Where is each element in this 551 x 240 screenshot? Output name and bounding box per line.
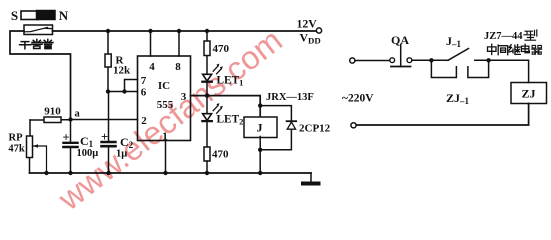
svg-text:470: 470 xyxy=(212,149,229,161)
svg-text:6: 6 xyxy=(141,87,147,99)
svg-text:C1: C1 xyxy=(80,134,94,149)
wire to QA xyxy=(355,60,390,62)
svg-text:12k: 12k xyxy=(113,65,131,77)
svg-text:a: a xyxy=(75,109,81,120)
wire J bottom xyxy=(259,137,261,174)
svg-text:RP: RP xyxy=(9,133,24,144)
svg-text:JRX—13F: JRX—13F xyxy=(266,92,314,103)
svg-text:ZJ: ZJ xyxy=(521,87,535,101)
resistor R 12k xyxy=(107,31,109,92)
svg-text:3: 3 xyxy=(181,91,187,103)
svg-text:470: 470 xyxy=(213,43,230,55)
node ZJ-1 right xyxy=(486,58,490,62)
svg-text:7: 7 xyxy=(141,75,147,87)
svg-text:4: 4 xyxy=(149,61,155,73)
svg-text:IC: IC xyxy=(158,80,170,92)
resistor 470 bottom xyxy=(204,147,210,161)
wire QA to contact xyxy=(412,59,448,61)
resistor 470 top xyxy=(206,31,208,75)
node C2 bottom xyxy=(106,171,110,175)
relay contact J-1 blade xyxy=(448,49,469,61)
label 中间继电器 xyxy=(488,44,542,54)
svg-text:~220V: ~220V xyxy=(342,93,374,105)
svg-text:2CP12: 2CP12 xyxy=(299,123,331,135)
node RP wiper xyxy=(44,171,48,175)
magnet N pole (black box) xyxy=(37,11,56,20)
node pin8 branch xyxy=(177,29,181,33)
LED LET2 xyxy=(206,96,208,114)
svg-text:+: + xyxy=(62,131,69,145)
svg-text:LET2: LET2 xyxy=(217,114,244,127)
svg-text:J: J xyxy=(257,121,263,135)
wire reed left loop xyxy=(10,31,71,120)
wire pin2 xyxy=(71,119,138,121)
wire pin8 xyxy=(178,31,180,56)
svg-text:JZ7—44: JZ7—44 xyxy=(484,31,523,42)
node 470 bottom xyxy=(205,171,209,175)
bottom rail xyxy=(30,172,312,174)
capacitor C2 1u xyxy=(108,147,110,173)
node a xyxy=(68,117,72,121)
node R branch xyxy=(106,29,110,33)
svg-text:+: + xyxy=(101,130,108,144)
wire pin1 xyxy=(165,141,167,174)
svg-text:100μ: 100μ xyxy=(77,148,99,159)
node LED branch xyxy=(205,29,209,33)
ground xyxy=(310,173,312,181)
wire pin3 xyxy=(191,96,261,116)
wire contact right xyxy=(475,60,529,82)
svg-text:12V: 12V xyxy=(297,17,318,31)
capacitor C1 100u xyxy=(70,120,72,174)
svg-text:910: 910 xyxy=(44,106,61,118)
relay box ZJ xyxy=(511,83,547,104)
node LED junction pin3 xyxy=(205,93,209,97)
terminal upper left xyxy=(350,58,355,63)
node J bottom xyxy=(258,171,262,175)
terminal lower left xyxy=(351,123,356,128)
svg-text:8: 8 xyxy=(175,61,181,73)
svg-text:N: N xyxy=(59,8,69,23)
svg-text:ZJ–1: ZJ–1 xyxy=(446,91,470,106)
contact ZJ-1 xyxy=(431,60,488,77)
glyph 型 xyxy=(524,30,537,40)
pushbutton QA xyxy=(390,58,395,63)
svg-text:S: S xyxy=(11,8,18,23)
node pin4 branch xyxy=(148,29,152,33)
reed switch label 干簧管 xyxy=(20,39,53,48)
node diode bottom junction xyxy=(258,148,262,152)
svg-text:LET1: LET1 xyxy=(217,74,244,87)
wire top rail xyxy=(53,30,317,32)
svg-text:J–1: J–1 xyxy=(446,34,462,49)
potentiometer RP 47k xyxy=(29,120,32,173)
diode 2CP12 xyxy=(260,106,291,150)
node C1 bottom xyxy=(68,171,72,175)
reed switch box xyxy=(24,25,53,35)
svg-text:47k: 47k xyxy=(8,144,25,155)
wire pins 6,7 xyxy=(108,80,138,92)
12V supply terminal xyxy=(316,28,321,33)
LED LET1 xyxy=(203,74,212,81)
wire ZJ to bottom xyxy=(356,104,528,126)
node pin6 junction xyxy=(106,89,110,93)
svg-text:555: 555 xyxy=(157,99,174,111)
magnet S pole (white box) xyxy=(21,11,38,20)
svg-text:QA: QA xyxy=(391,33,409,47)
resistor 910 xyxy=(30,119,69,121)
node ZJ-1 left xyxy=(429,58,433,62)
svg-text:1μ: 1μ xyxy=(116,149,127,160)
wire pin4 xyxy=(150,31,152,56)
relay coil J box xyxy=(244,117,277,138)
reed switch blade xyxy=(25,27,53,31)
node diode branch xyxy=(258,103,262,107)
IC U1 555 timer xyxy=(138,56,191,141)
svg-text:2: 2 xyxy=(141,115,147,127)
watermark xyxy=(52,22,290,218)
node pin1 bottom xyxy=(163,171,167,175)
node pin7 junction xyxy=(122,89,126,93)
wire R to C2 xyxy=(108,92,110,142)
